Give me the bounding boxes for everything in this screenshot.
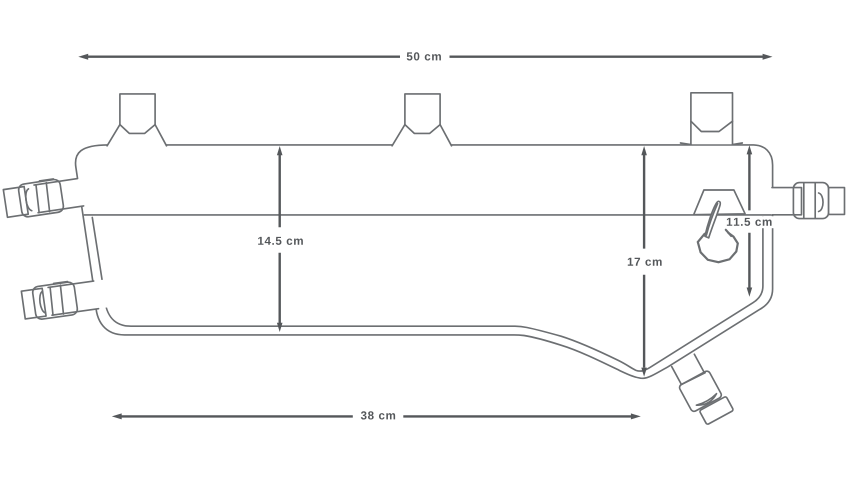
top strap 3 fill [691,93,733,144]
bottom right strap [669,351,734,428]
dimension 38 cm left arrowhead [112,413,122,419]
dimension 11.5 cm white backing [724,216,775,228]
dimension 11.5 cm top arrowhead [747,145,753,154]
dimension 17 cm bottom arrowhead [641,368,647,377]
bag seam line [84,214,772,216]
top strap 3 chevron [691,121,733,131]
dimension 11.5 cm line [748,154,750,288]
label 50 cm [407,52,441,60]
top strap 1 dip [120,125,155,134]
hook tip [726,230,731,236]
left buckle 2 [21,276,111,321]
top strap 1 outline [107,94,166,146]
hook neck [705,201,720,238]
dimension 50 cm left arrowhead [78,54,88,60]
dimension drawings [78,54,774,420]
top strap 3 left tick [681,143,691,145]
top strap 2 fill [392,94,453,147]
bag inner hem line [92,217,763,371]
dimension 38 cm right arrowhead [631,413,641,419]
top strap 2 dip [405,125,440,134]
label 17 cm [628,258,662,266]
top strap 2 outline [392,94,451,146]
right buckle [771,183,844,219]
top strap 1 fill [107,94,168,147]
dimension 14.5 cm bottom arrowhead [277,323,283,332]
dimension 14.5 cm top arrowhead [277,146,283,155]
dimension 17 cm top arrowhead [641,146,647,155]
label 14.5 cm [258,237,303,245]
hook neck crease [706,204,717,236]
dimension 17 cm line [643,154,645,368]
label 38 cm [361,411,395,419]
top strap 3 outline [691,93,733,145]
label 11.5 cm [727,218,772,226]
dimension 14.5 cm line [279,154,281,324]
bag outer outline [76,145,773,378]
left buckle 1 [3,174,90,220]
hook hexagon [698,233,738,262]
dimension 11.5 cm bottom arrowhead [747,288,753,297]
top strap 3 right tick [733,143,743,145]
dimension 38 cm line [121,415,632,417]
hook tab [694,190,745,215]
dimension 50 cm right arrowhead [763,54,773,60]
dimension 50 cm line [88,56,764,58]
